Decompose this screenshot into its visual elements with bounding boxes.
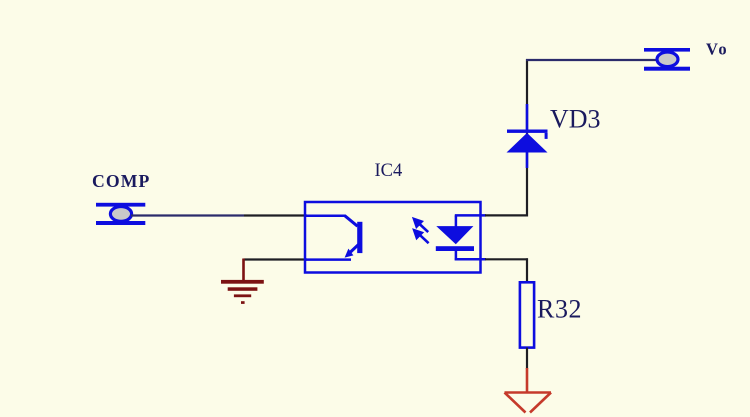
svg-text:COMP: COMP [92, 171, 150, 191]
port COMP [96, 203, 145, 225]
wire COMP to IC4 pin [131, 214, 307, 216]
IC4 phototransistor [305, 216, 362, 260]
svg-text:Vo: Vo [706, 39, 729, 58]
svg-text:IC4: IC4 [375, 161, 403, 181]
IC4 light arrows [414, 219, 429, 243]
wire IC4 top pin to VD3 [485, 104, 528, 217]
wire ground to IC4 pin [244, 258, 308, 260]
power ground [505, 368, 552, 413]
zener diode VD3 [507, 104, 548, 168]
svg-text:R32: R32 [537, 294, 582, 323]
wire VD3 to Vo [526, 59, 657, 104]
optocoupler IC4 body [305, 202, 481, 273]
ground [221, 259, 264, 304]
svg-text:VD3: VD3 [550, 105, 601, 134]
port Vo [644, 48, 690, 71]
resistor R32 [520, 282, 534, 347]
wire IC4 bottom pin to R32 [485, 258, 528, 282]
IC4 LED [436, 215, 486, 260]
wire R32 to power ground [526, 348, 528, 369]
